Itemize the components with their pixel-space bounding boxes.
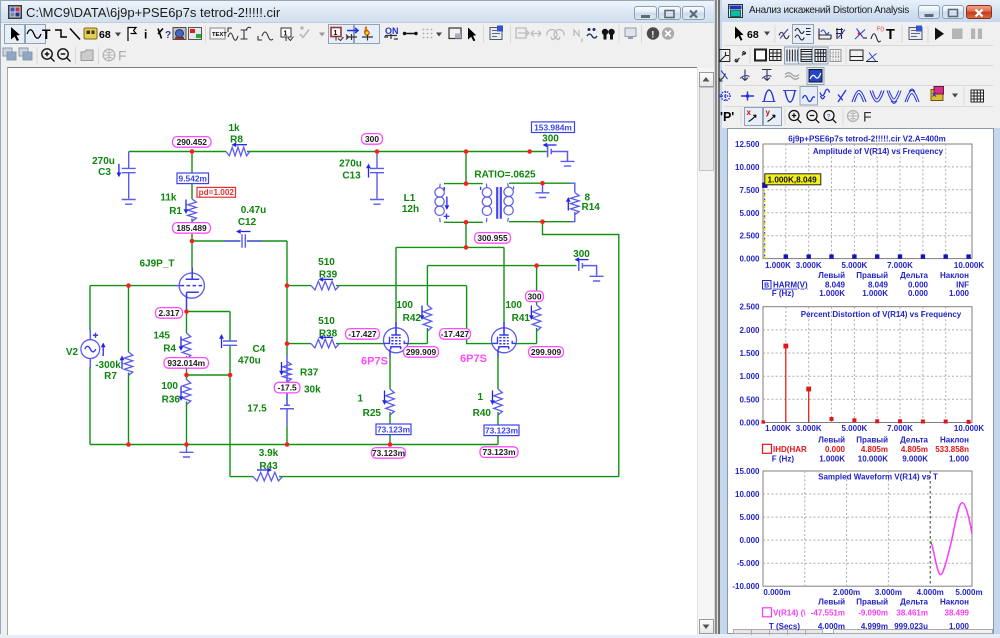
wire secondary bottom [509, 221, 571, 223]
wire R39 row [287, 285, 467, 287]
svg-text:R41: R41 [512, 313, 531, 324]
junction R39 left [285, 283, 290, 288]
junction node 932.014m [184, 373, 189, 378]
wire mid column x287 [286, 241, 288, 445]
svg-text:9.000K: 9.000K [902, 454, 928, 463]
svg-text:Sampled Waveform V(R14) vs T: Sampled Waveform V(R14) vs T [818, 473, 938, 482]
svg-text:932.014m: 932.014m [167, 358, 205, 368]
svg-text:5.000: 5.000 [739, 513, 760, 522]
node label 185.489 [173, 223, 211, 234]
svg-text:7.000K: 7.000K [887, 261, 913, 270]
junction primary bottom [464, 220, 469, 225]
svg-text:6P7S: 6P7S [460, 353, 487, 365]
svg-text:L1: L1 [404, 193, 416, 204]
node label 300.955 [475, 233, 511, 244]
junction R38 left [285, 341, 290, 346]
resistor R7 [124, 352, 133, 375]
svg-text:TEXT: TEXT [212, 32, 227, 38]
svg-text:F: F [863, 109, 872, 125]
resistor R42 [423, 305, 432, 331]
current label R40 current [484, 425, 519, 436]
svg-text:100: 100 [161, 381, 178, 392]
svg-text:12h: 12h [402, 204, 419, 215]
svg-text:4.000m: 4.000m [818, 622, 845, 631]
wire ground row [90, 444, 498, 446]
svg-text:Дельта: Дельта [900, 435, 928, 444]
junction primary top [464, 181, 469, 186]
node label 300 mid [526, 291, 544, 302]
junction battery 17.5 bottom [285, 442, 290, 447]
svg-text:4.805m: 4.805m [901, 445, 928, 454]
battery V 300 mid [579, 260, 597, 276]
svg-text:Правый: Правый [856, 597, 888, 606]
svg-text:0.000: 0.000 [739, 255, 760, 264]
wire C4 feedback column [229, 312, 231, 477]
svg-text:-47.551m: -47.551m [811, 609, 845, 618]
svg-text:270u: 270u [339, 159, 362, 170]
svg-text:1.000K,8.049: 1.000K,8.049 [768, 176, 818, 185]
wire plate R1 column [191, 152, 193, 242]
resistor R37 [283, 362, 292, 382]
wire screen supply row [427, 265, 576, 267]
svg-text:C3: C3 [98, 167, 111, 178]
junction battery node [527, 149, 532, 154]
svg-text:V(R14) (\: V(R14) (\ [773, 609, 806, 618]
vertical scrollbar [697, 68, 714, 635]
svg-text:68: 68 [747, 29, 759, 41]
svg-text:1.000K: 1.000K [862, 289, 888, 298]
svg-text:pd=1.002: pd=1.002 [199, 188, 235, 197]
svg-text:1.000: 1.000 [739, 372, 760, 381]
svg-text:73.123m: 73.123m [377, 424, 410, 434]
svg-text:R1: R1 [169, 206, 182, 217]
wire secondary return loop [543, 222, 619, 477]
svg-text:R39: R39 [319, 270, 338, 281]
svg-text:3.000K: 3.000K [796, 261, 822, 270]
junction node 185.489 [190, 239, 195, 244]
capacitor C3 [122, 152, 136, 199]
junction R25 bottom [388, 442, 393, 447]
junction ground node [184, 442, 189, 447]
svg-text:-10.000: -10.000 [732, 582, 760, 591]
junction R41 top [534, 263, 539, 268]
svg-text:6P7S: 6P7S [361, 356, 388, 368]
svg-text:38.499: 38.499 [945, 609, 970, 618]
node label 932.014m [164, 358, 209, 369]
svg-text:10.000K: 10.000K [858, 454, 888, 463]
svg-text:-5.000: -5.000 [737, 559, 760, 568]
wire tube1 screen to R42 [409, 343, 428, 345]
node label 299.909 second [529, 347, 564, 358]
wire node to 6J9P plate [191, 241, 193, 268]
wire R36 C4 row [187, 374, 231, 376]
svg-text:F (Hz): F (Hz) [772, 454, 795, 463]
wire cathode R4 R36 column [186, 309, 188, 445]
wire anode feed row [396, 247, 504, 323]
svg-text:R37: R37 [300, 368, 319, 379]
ground battery top [561, 161, 575, 166]
svg-text:300: 300 [365, 134, 379, 144]
svg-text:R40: R40 [473, 408, 492, 419]
svg-text:i: i [144, 28, 147, 42]
wire primary bottom to node [465, 222, 467, 247]
wire tube2 screen to R41 [517, 343, 537, 345]
resistor R40 [494, 389, 503, 415]
resistor R25 [386, 389, 395, 415]
svg-text:10.000: 10.000 [735, 163, 760, 172]
svg-text:R43: R43 [259, 461, 278, 472]
svg-text:7.000K: 7.000K [887, 424, 913, 433]
svg-text:11k: 11k [160, 193, 177, 204]
toolbar rows [1, 23, 714, 70]
node label 290.452 [173, 137, 212, 148]
svg-text:-17.427: -17.427 [348, 329, 377, 339]
svg-text:9.542m: 9.542m [179, 173, 207, 183]
svg-text:R36: R36 [162, 395, 181, 406]
wire R7 column [128, 286, 130, 445]
svg-text:Левый: Левый [818, 597, 845, 606]
svg-text:F (Hz): F (Hz) [772, 289, 795, 298]
svg-text:0.000: 0.000 [739, 419, 760, 428]
svg-text:F: F [118, 48, 127, 64]
AC source V2 [81, 340, 100, 359]
svg-text:1.000K: 1.000K [819, 454, 845, 463]
content area [727, 128, 994, 634]
svg-text:T: T [42, 26, 51, 42]
svg-text:299.909: 299.909 [406, 347, 437, 357]
svg-text:5.000K: 5.000K [842, 261, 868, 270]
svg-text:0.47u: 0.47u [241, 205, 267, 216]
junction node 300.955 [464, 245, 469, 250]
node label -17.427 first [346, 329, 380, 340]
svg-text:153.984m: 153.984m [534, 122, 572, 132]
svg-text:Левый: Левый [818, 271, 845, 280]
svg-text:Левый: Левый [818, 435, 845, 444]
junction node 290.452 [190, 149, 195, 154]
svg-text:-17.427: -17.427 [441, 329, 470, 339]
current label R25 current [376, 424, 411, 435]
power label pd=1.002 [197, 187, 236, 197]
svg-text:470u: 470u [238, 356, 261, 367]
svg-text:!: ! [651, 29, 654, 40]
svg-text:1.000: 1.000 [949, 454, 970, 463]
svg-text:1.500: 1.500 [739, 349, 760, 358]
wire tube2 grid feed [467, 286, 492, 344]
junction node 300 top [375, 149, 380, 154]
wire grid row 6J9P [90, 285, 180, 287]
resistor R36 [182, 380, 191, 405]
svg-text:R14: R14 [582, 202, 601, 213]
svg-text:999.023u: 999.023u [894, 622, 928, 631]
svg-text:B: B [764, 283, 769, 290]
current label 9.542m [177, 173, 209, 184]
transformer secondary [508, 183, 514, 222]
svg-text:R38: R38 [319, 329, 338, 340]
capacitor C12 [224, 234, 263, 248]
svg-text:510: 510 [318, 316, 335, 327]
svg-text:185.489: 185.489 [176, 223, 207, 233]
junction transformer feed [464, 149, 469, 154]
svg-text:100: 100 [505, 300, 522, 311]
svg-text:300: 300 [542, 134, 559, 145]
capacitor C4 [223, 341, 237, 345]
node label 2.317 [156, 308, 183, 319]
resistor R41 [532, 305, 541, 331]
wire tube1 cathode to R25 [389, 357, 391, 445]
toolbar block [722, 22, 1000, 128]
svg-text:0.000m: 0.000m [763, 588, 790, 597]
wire primary bottom [444, 221, 483, 223]
svg-text:2.000m: 2.000m [833, 588, 860, 597]
junction C4 bottom [228, 373, 233, 378]
svg-text:0.000: 0.000 [825, 445, 846, 454]
node label -17.5 [274, 382, 300, 393]
junction secondary bottom [540, 219, 545, 224]
svg-text:IHD(HAR: IHD(HAR [773, 445, 807, 454]
svg-text:C12: C12 [238, 217, 257, 228]
svg-text:Дельта: Дельта [900, 271, 928, 280]
svg-text:5.000: 5.000 [739, 209, 760, 218]
svg-text:R4: R4 [163, 344, 176, 355]
battery V 300 top right [546, 146, 568, 161]
svg-text:10.000: 10.000 [735, 490, 760, 499]
ground C3 [122, 200, 136, 205]
resistor R4 [182, 333, 191, 359]
svg-text:-300k: -300k [95, 360, 121, 371]
svg-text:38.461m: 38.461m [896, 609, 928, 618]
junction R7 bottom [126, 442, 131, 447]
svg-text:300.955: 300.955 [477, 233, 508, 243]
svg-text:73.123m: 73.123m [482, 447, 515, 457]
svg-text:2.500: 2.500 [739, 303, 760, 312]
pentode U 6P7S first [384, 322, 409, 357]
svg-text:0.000: 0.000 [908, 289, 929, 298]
svg-text:'P': 'P' [720, 110, 734, 124]
junction node 2.317 [184, 309, 189, 314]
junction secondary top [540, 181, 545, 186]
separator strip between windows [714, 0, 721, 634]
ground main [186, 445, 188, 453]
svg-text:R42: R42 [403, 313, 422, 324]
svg-text:510: 510 [318, 257, 335, 268]
svg-text:Дельта: Дельта [900, 597, 928, 606]
svg-text:4.805m: 4.805m [861, 445, 888, 454]
svg-text:1.000: 1.000 [949, 289, 970, 298]
battery V 17.5 [280, 355, 294, 426]
svg-text:2.500: 2.500 [739, 232, 760, 241]
svg-text:V2: V2 [66, 347, 79, 358]
ground secondary center tap [542, 183, 544, 192]
svg-text:C13: C13 [342, 171, 361, 182]
svg-text:73.123m: 73.123m [485, 425, 518, 435]
svg-text:Наклон: Наклон [940, 435, 969, 444]
svg-text:Percent Distortion of V(R14) v: Percent Distortion of V(R14) vs Frequenc… [801, 310, 962, 319]
svg-text:533.858n: 533.858n [935, 445, 969, 454]
svg-text:ON: ON [385, 26, 399, 36]
svg-text:1.000K: 1.000K [765, 261, 791, 270]
svg-text:1k: 1k [228, 123, 240, 134]
svg-text:Правый: Правый [856, 271, 888, 280]
wire secondary top [509, 182, 571, 184]
svg-text:1.000K: 1.000K [819, 289, 845, 298]
svg-text:2.000: 2.000 [739, 326, 760, 335]
svg-text:1.000K: 1.000K [765, 424, 791, 433]
svg-text:?: ? [827, 113, 831, 120]
svg-text:R25: R25 [363, 408, 382, 419]
current label battery current [532, 122, 575, 133]
svg-text:0.500: 0.500 [739, 395, 760, 404]
triode U 6J9P_T [179, 273, 204, 298]
svg-text:4.000m: 4.000m [917, 588, 944, 597]
node label -17.427 second [440, 329, 471, 340]
svg-text:T (Secs): T (Secs) [769, 622, 800, 631]
svg-text:R7: R7 [104, 371, 117, 382]
wire R41 column [536, 266, 538, 344]
svg-text:10.000K: 10.000K [954, 261, 984, 270]
svg-text:10.000K: 10.000K [954, 424, 984, 433]
svg-text:Наклон: Наклон [940, 271, 969, 280]
svg-text:Наклон: Наклон [940, 597, 969, 606]
svg-text:1: 1 [284, 31, 288, 38]
wire V2 column [89, 286, 91, 445]
svg-text:3.000K: 3.000K [796, 424, 822, 433]
svg-text:7.500: 7.500 [739, 186, 760, 195]
canvas [7, 67, 697, 635]
transformer L1 primary [439, 184, 442, 223]
svg-text:y: y [766, 108, 771, 117]
title bar [1, 1, 714, 23]
svg-text:R8: R8 [230, 135, 243, 146]
svg-text:100: 100 [396, 300, 413, 311]
pentode U 6P7S second [492, 322, 517, 357]
resistor R1 [188, 199, 197, 221]
wire primary top [444, 183, 483, 185]
resistor R39 [311, 281, 339, 290]
svg-text:290.452: 290.452 [177, 137, 208, 147]
resistor R38 [311, 339, 339, 348]
svg-text:12.500: 12.500 [735, 140, 760, 149]
node label 299.909 first [404, 347, 439, 358]
svg-text:5.000K: 5.000K [842, 424, 868, 433]
svg-text:T: T [886, 27, 895, 43]
svg-text:270u: 270u [92, 156, 115, 167]
svg-text:1.000: 1.000 [949, 622, 970, 631]
svg-text:1: 1 [477, 392, 483, 403]
wire tube2 cathode to R40 [497, 357, 499, 445]
svg-text:C4: C4 [253, 344, 266, 355]
svg-text:-9.090m: -9.090m [858, 609, 888, 618]
svg-text:x: x [747, 108, 752, 117]
wire C12 row [192, 240, 287, 242]
ground battery mid [590, 276, 604, 281]
node label 73.123m second [480, 447, 518, 458]
svg-text:299.909: 299.909 [531, 347, 562, 357]
svg-text:145: 145 [153, 331, 170, 342]
svg-text:?: ? [165, 30, 171, 41]
svg-text:30k: 30k [304, 385, 321, 396]
node label 73.123m first [372, 448, 406, 459]
svg-text:Amplitude of V(R14) vs Frequen: Amplitude of V(R14) vs Frequency [813, 147, 944, 156]
svg-text:1: 1 [334, 30, 338, 37]
svg-text:68: 68 [99, 29, 111, 41]
svg-text:1: 1 [357, 394, 363, 405]
svg-text:F(): F() [877, 27, 884, 33]
wire R42 column [426, 266, 428, 344]
capacitor C13 [370, 152, 384, 199]
svg-text:4.999m: 4.999m [861, 622, 888, 631]
svg-text:73.123m: 73.123m [372, 448, 405, 458]
ground C13 [370, 200, 384, 205]
bottom scroll stubs [733, 629, 823, 634]
svg-text:17.5: 17.5 [247, 404, 267, 415]
svg-text:300: 300 [573, 249, 590, 260]
node label 300 top [362, 134, 383, 145]
wire R38 row to tube1 grid [287, 343, 384, 345]
resistor R14 [571, 193, 580, 215]
junction R7 top [126, 283, 131, 288]
svg-text:RATIO=.0625: RATIO=.0625 [474, 170, 536, 181]
svg-text:Правый: Правый [856, 435, 888, 444]
svg-text:3.9k: 3.9k [259, 448, 279, 459]
svg-text:6J9P_T: 6J9P_T [139, 259, 174, 270]
title bar [722, 0, 1000, 22]
wire R43 feedback row [230, 476, 619, 478]
svg-text:6j9p+PSE6p7s tetrod-2!!!!!.cir: 6j9p+PSE6p7s tetrod-2!!!!!.cir V2.A=400m [788, 134, 945, 143]
transformer core [497, 187, 501, 219]
wire cathode to C4 row [187, 311, 231, 313]
svg-text:300: 300 [528, 291, 542, 301]
resistor R8 [226, 147, 250, 156]
svg-text:3.000m: 3.000m [875, 588, 902, 597]
svg-text:15.000: 15.000 [735, 467, 760, 476]
resistor R43 [253, 472, 283, 481]
wire transformer primary feed [465, 152, 467, 184]
svg-text:0.000: 0.000 [739, 536, 760, 545]
svg-text:2.317: 2.317 [159, 308, 180, 318]
wire B+ top row [129, 151, 546, 153]
svg-text:5.000m: 5.000m [955, 588, 982, 597]
svg-text:-17.5: -17.5 [278, 383, 297, 393]
